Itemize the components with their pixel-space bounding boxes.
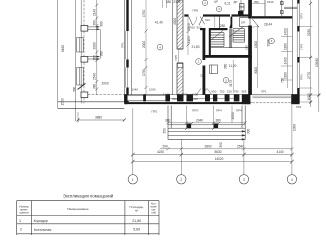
svg-text:2000: 2000: [142, 41, 146, 48]
svg-text:ПР3: ПР3: [300, 74, 304, 80]
svg-text:13080: 13080: [315, 58, 319, 67]
svg-text:350: 350: [163, 128, 167, 134]
svg-text:1040: 1040: [132, 88, 139, 92]
corridor dim line: [187, 17, 189, 55]
room circle 5: [223, 77, 229, 83]
dim right of circle5: [232, 60, 234, 93]
svg-text:4230: 4230: [157, 150, 164, 154]
dim line: [74, 0, 76, 121]
stair/room6 wall: [248, 0, 252, 19]
row2: [133, 154, 292, 156]
svg-text:350: 350: [219, 142, 223, 148]
svg-text:2810: 2810: [187, 23, 191, 30]
window pair lines: [296, 4, 298, 27]
svg-text:3175: 3175: [229, 80, 233, 87]
svg-text:21,80: 21,80: [132, 219, 141, 223]
svg-text:1750: 1750: [142, 10, 146, 17]
colonnade edge line: [80, 0, 82, 103]
svg-text:2040: 2040: [196, 118, 203, 122]
bottom heavy line: [124, 101, 252, 103]
swings at entrance: [196, 89, 201, 96]
svg-text:ДР: ДР: [234, 0, 238, 4]
table rows: [19, 219, 141, 232]
stair break lines: [211, 31, 223, 41]
core piers: [297, 0, 299, 4]
svg-text:950: 950: [254, 0, 259, 4]
ledge lines: [284, 6, 297, 8]
svg-text:2340: 2340: [267, 0, 274, 4]
sill lines in openings: [170, 97, 177, 99]
svg-text:1: 1: [132, 178, 134, 182]
svg-text:1000: 1000: [231, 112, 235, 119]
svg-text:3103: 3103: [187, 36, 191, 43]
room5 left wall: [203, 66, 206, 96]
door sill lines in gap: [178, 49, 180, 63]
svg-text:м²: м²: [135, 209, 138, 213]
svg-text:380: 380: [93, 83, 97, 89]
svg-text:380: 380: [216, 118, 222, 122]
svg-text:8160: 8160: [61, 45, 65, 52]
inner thin line: [130, 0, 132, 95]
svg-text:1040: 1040: [163, 93, 170, 97]
wall core piers: [126, 0, 128, 31]
room circle 3: [216, 6, 221, 11]
svg-text:5: 5: [225, 78, 227, 82]
svg-text:2149: 2149: [173, 0, 180, 4]
svg-text:910: 910: [205, 18, 210, 22]
room6 top wall: [252, 16, 293, 18]
svg-text:290: 290: [162, 144, 168, 148]
svg-text:Наименование: Наименование: [67, 207, 89, 211]
partition above room6: [264, 0, 266, 16]
window dim line: [96, 0, 98, 95]
diagonal mark: [78, 84, 86, 90]
extension line: [57, 0, 59, 108]
svg-text:300: 300: [247, 128, 251, 134]
outer thin line: [123, 0, 125, 102]
svg-text:3880: 3880: [95, 116, 102, 120]
step lines: [168, 130, 245, 132]
svg-text:2: 2: [180, 178, 182, 182]
svg-text:1000: 1000: [181, 93, 188, 97]
svg-text:310: 310: [193, 97, 198, 101]
svg-text:380: 380: [224, 63, 228, 69]
svg-text:750: 750: [220, 90, 225, 94]
axis circle 4: [287, 175, 296, 184]
svg-text:2080: 2080: [93, 42, 97, 49]
partition at 231.5: [231, 17, 233, 29]
steps rails lower: [77, 68, 84, 86]
axis circle 3: [239, 175, 248, 184]
window boxes: [127, 95, 143, 101]
interior dim room6: [257, 25, 259, 88]
post1 dim stubs: [88, 26, 99, 28]
svg-text:ПР1: ПР1: [261, 90, 267, 94]
svg-text:365: 365: [242, 90, 247, 94]
dim 3880: [78, 119, 124, 121]
svg-text:щения: щения: [19, 210, 29, 214]
svg-text:1: 1: [19, 219, 21, 223]
svg-text:2140: 2140: [93, 9, 97, 16]
ticks: [131, 153, 294, 164]
right wall window dim chain: [287, 28, 289, 88]
rails: [167, 106, 169, 140]
svg-text:2: 2: [204, 1, 206, 5]
columns: [187, 124, 192, 129]
svg-text:ПР4: ПР4: [236, 109, 242, 113]
svg-text:ПР3: ПР3: [300, 13, 304, 19]
svg-text:510: 510: [227, 90, 232, 94]
svg-text:2: 2: [20, 228, 22, 232]
svg-text:3000: 3000: [254, 67, 258, 74]
svg-text:360: 360: [172, 97, 177, 101]
svg-text:Экспликация помещений: Экспликация помещений: [63, 193, 114, 198]
svg-text:380: 380: [73, 86, 77, 92]
axis circle 2: [177, 175, 186, 184]
row1: [160, 148, 292, 150]
svg-text:2800: 2800: [204, 144, 211, 148]
svg-text:ПР3*: ПР3*: [192, 109, 200, 113]
svg-text:2540: 2540: [93, 73, 97, 80]
slab edge lines: [168, 124, 245, 126]
svg-text:14020: 14020: [215, 157, 224, 161]
svg-text:ПР4: ПР4: [216, 109, 222, 113]
svg-text:1750: 1750: [142, 69, 146, 76]
svg-text:650: 650: [212, 90, 217, 94]
column guides: [186, 106, 188, 125]
svg-text:2000: 2000: [102, 82, 109, 86]
svg-text:750: 750: [281, 77, 285, 83]
stair left wall: [203, 28, 206, 60]
partition at 219.5: [219, 17, 221, 28]
svg-text:4: 4: [159, 45, 161, 49]
svg-text:ОР: ОР: [241, 21, 245, 25]
window lines: [124, 31, 126, 60]
piers: [124, 94, 127, 104]
svg-text:280: 280: [220, 24, 226, 28]
extension lines to axes: [132, 108, 134, 175]
stair arrow: [229, 27, 231, 48]
porch dim line: [168, 122, 245, 124]
svg-text:ний: ний: [152, 211, 157, 215]
svg-text:240: 240: [245, 45, 249, 50]
door leaves corridor top: [189, 17, 193, 26]
svg-text:Котельная: Котельная: [34, 228, 51, 232]
svg-text:6: 6: [271, 39, 273, 43]
svg-text:ПР1: ПР1: [296, 105, 302, 109]
door box room5: [210, 65, 218, 74]
dim ticks on window dim line: [95, 4, 98, 91]
axis circle 1: [128, 175, 137, 184]
svg-text:790: 790: [234, 90, 239, 94]
dashed beam: [88, 93, 125, 95]
steps rails upper: [77, 38, 84, 53]
svg-text:ПР6: ПР6: [193, 9, 199, 13]
svg-text:41,40: 41,40: [155, 21, 163, 25]
svg-text:1000: 1000: [293, 124, 297, 131]
stair treads right flight: [233, 29, 245, 42]
svg-text:4: 4: [291, 178, 293, 182]
svg-text:380: 380: [93, 20, 97, 26]
svg-text:21,80: 21,80: [192, 45, 200, 49]
svg-text:1500: 1500: [61, 98, 65, 105]
svg-text:Коридор: Коридор: [34, 219, 48, 223]
inner thin line: [291, 0, 293, 95]
svg-text:1000: 1000: [307, 93, 311, 100]
post2 dim stubs: [88, 56, 99, 58]
svg-text:1500: 1500: [254, 41, 258, 48]
svg-text:3: 3: [243, 178, 245, 182]
room circle 6: [269, 38, 275, 44]
svg-text:ПР3: ПР3: [300, 43, 304, 49]
svg-text:3: 3: [218, 7, 220, 11]
top thin line: [124, 93, 299, 95]
svg-text:380: 380: [100, 51, 104, 57]
svg-text:2770: 2770: [307, 72, 311, 79]
stair bottom wall: [203, 55, 252, 58]
post 1: [81, 26, 88, 32]
wall over corridor: [184, 14, 188, 16]
interior bottom dim chain: [163, 90, 247, 101]
svg-text:6,11: 6,11: [225, 2, 231, 6]
svg-text:3000: 3000: [266, 39, 270, 46]
svg-text:4500: 4500: [173, 18, 177, 25]
svg-text:380: 380: [100, 21, 104, 27]
svg-text:1: 1: [198, 60, 200, 64]
svg-text:380: 380: [93, 55, 97, 61]
svg-text:5,69: 5,69: [133, 228, 140, 232]
svg-text:4140: 4140: [276, 150, 283, 154]
room circle 2: [202, 0, 207, 5]
svg-text:5630: 5630: [214, 150, 221, 154]
second door swing: [200, 17, 204, 25]
OP box: [240, 18, 251, 27]
svg-text:910: 910: [197, 26, 202, 30]
svg-text:ПР2: ПР2: [152, 110, 158, 114]
svg-text:1400: 1400: [284, 28, 288, 35]
interior dim chain room4: [145, 0, 147, 95]
svg-text:ПР1: ПР1: [120, 42, 124, 48]
terrace south edges: [58, 101, 125, 103]
row3: [133, 161, 292, 163]
svg-text:380: 380: [165, 118, 171, 122]
svg-text:1400: 1400: [284, 57, 288, 64]
second wall y28: [200, 28, 206, 30]
stair treads left flight: [211, 33, 224, 47]
svg-text:11,20: 11,20: [229, 64, 237, 68]
svg-text:ЦР: ЦР: [214, 0, 218, 4]
door boxes top right: [281, 2, 284, 5]
svg-text:ПР5: ПР5: [174, 54, 178, 60]
table header texts: [19, 204, 144, 214]
shaft boxes: [240, 4, 245, 8]
room circle 1: [196, 59, 202, 65]
stair well stringers: [229, 29, 231, 48]
room circle 4: [157, 44, 163, 50]
svg-text:28,44: 28,44: [264, 22, 272, 26]
post 2: [81, 57, 88, 63]
svg-text:2540: 2540: [237, 144, 244, 148]
door swing room6: [252, 19, 258, 27]
svg-text:5230: 5230: [307, 29, 311, 36]
post 3: [81, 92, 88, 98]
svg-text:1180: 1180: [284, 43, 288, 50]
colonnade axis dash-dot: [83, 0, 85, 103]
svg-text:1060: 1060: [149, 88, 156, 92]
